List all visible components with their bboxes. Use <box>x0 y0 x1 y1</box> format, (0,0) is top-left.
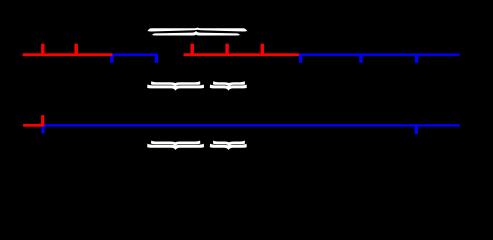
node red tick r2-1 <box>41 115 44 126</box>
node red tick r1-2 <box>75 44 78 56</box>
underbrace inner row1-left <box>151 81 200 87</box>
wire blue segment row2 <box>43 124 460 126</box>
node blue tick b2-2 <box>415 124 418 134</box>
node blue tick b1-3 <box>299 54 303 63</box>
node blue tick b2-1 <box>41 124 44 133</box>
underbrace inner row1-right <box>213 81 245 87</box>
node blue tick b1-2 <box>155 54 159 63</box>
node red tick r1-1 <box>41 44 44 56</box>
underbrace outer row2-right <box>210 144 247 150</box>
overbrace inner <box>152 31 241 36</box>
overbrace outer top <box>147 28 247 32</box>
wire red segment row1 right <box>184 53 300 56</box>
node red tick r1-4 <box>225 44 228 56</box>
node red tick r1-5 <box>261 44 264 56</box>
node blue tick b1-1 <box>110 54 114 63</box>
underbrace inner row2-right <box>213 141 245 147</box>
node red tick r1-3 <box>191 44 194 56</box>
underbrace outer row1-right <box>210 85 247 91</box>
underbrace inner row2-left <box>151 141 200 147</box>
node blue tick b1-4 <box>359 54 363 63</box>
underbrace outer row1-left <box>147 85 204 91</box>
wire blue segment row1 mid <box>113 54 158 56</box>
underbrace outer row2-left <box>147 144 204 150</box>
wire red segment row1 left <box>23 53 113 56</box>
node blue tick b1-5 <box>415 54 419 63</box>
wire red segment row2 <box>23 124 43 127</box>
wire blue segment row1 far-right <box>299 54 460 56</box>
